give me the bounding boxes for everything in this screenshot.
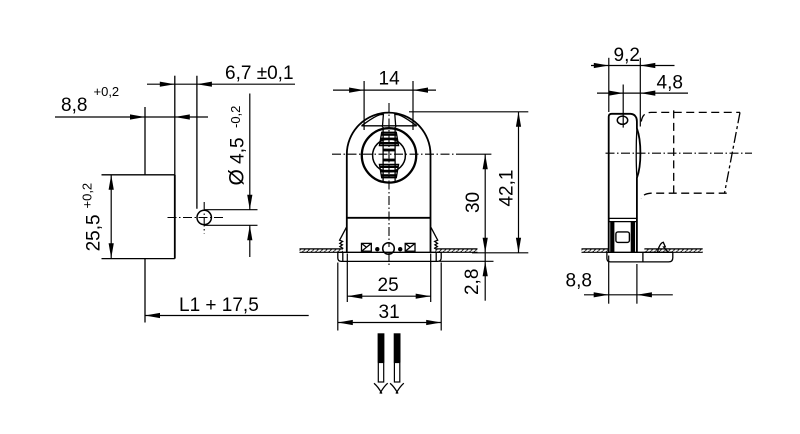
contact stack bottom <box>379 164 398 177</box>
contact strip left <box>610 222 614 253</box>
pin dot left <box>375 247 379 251</box>
svg-text:L1 + 17,5: L1 + 17,5 <box>179 295 259 316</box>
svg-text:-0,2: -0,2 <box>228 106 243 128</box>
svg-text:14: 14 <box>379 69 401 90</box>
foot claw left <box>340 227 347 248</box>
dimension 42,1 <box>518 112 520 253</box>
contact stack top <box>379 132 398 145</box>
svg-text:Ø 4,5: Ø 4,5 <box>226 137 249 185</box>
wire lead right <box>394 333 401 362</box>
svg-text:8,8: 8,8 <box>566 271 592 292</box>
pin dot right <box>398 247 402 251</box>
dimension 25,5 +0,2 <box>110 175 112 258</box>
dimension 6,7 ±0,1 <box>147 83 295 85</box>
mounting panel hatched strip left <box>582 249 609 252</box>
phantom lamp tube break line <box>725 112 741 193</box>
wire: mounting plane extension <box>472 252 528 254</box>
svg-text:2,8: 2,8 <box>462 269 483 295</box>
latch window <box>616 232 630 243</box>
mounting panel hatched strip right <box>644 249 702 252</box>
wire: profile top vertical edge x=145 <box>144 107 146 175</box>
node: horizontal centerline (lamp axis) <box>332 153 460 155</box>
svg-text:6,7 ±0,1: 6,7 ±0,1 <box>225 63 294 84</box>
wire: profile lower vertical edge x=145 <box>144 259 146 323</box>
dimension 8,8 (side) <box>608 256 610 304</box>
wire: body right side <box>430 154 432 252</box>
base flange side <box>607 252 673 262</box>
mounting panel hatched strip left <box>300 249 344 252</box>
contact strip right <box>631 222 635 253</box>
rotor outer circle <box>362 128 416 182</box>
center pin hole <box>383 243 395 255</box>
wire lead left <box>378 333 385 362</box>
dimension 2,8 <box>484 253 486 301</box>
dimension 9,2 <box>591 65 675 67</box>
svg-text:+0,2: +0,2 <box>80 183 95 209</box>
wire: lamp face plane line x=196.9 <box>196 76 198 209</box>
phantom lamp tube end <box>673 110 675 195</box>
recess wing left <box>362 114 384 127</box>
contact rungs center <box>383 149 395 152</box>
svg-text:+0,2: +0,2 <box>94 84 120 99</box>
mounting panel hatched strip right <box>435 249 478 252</box>
wire: profile bottom horizontal y=258.6 <box>102 258 175 260</box>
wire: body left side <box>346 154 348 252</box>
node: lamp axis centerline <box>606 152 753 154</box>
contact window left (square with cross) <box>362 243 372 251</box>
foot claw right <box>431 227 438 248</box>
svg-text:25: 25 <box>378 275 399 296</box>
contact channel walls <box>382 127 384 182</box>
wire: profile right vertical edge x=174.8 <box>174 76 176 175</box>
body side outline <box>609 114 641 253</box>
dimension 25 <box>346 254 348 303</box>
dimension 31 <box>337 263 339 331</box>
dimension 14 <box>333 89 436 91</box>
base box <box>609 217 637 219</box>
hole 4,5 circle <box>197 210 211 224</box>
mounting hole <box>617 116 627 124</box>
body dome arc <box>347 113 431 155</box>
svg-text:42,1: 42,1 <box>496 170 517 207</box>
svg-text:4,8: 4,8 <box>657 73 683 94</box>
contact window right (square with cross) <box>405 243 415 251</box>
snap claw <box>658 242 669 252</box>
wire: body step line <box>347 217 431 219</box>
dimension 4,8 <box>597 92 688 94</box>
svg-text:8,8: 8,8 <box>61 95 87 116</box>
phantom lamp tube bottom edge <box>641 193 726 199</box>
dome recess chord <box>361 125 416 127</box>
phantom lamp tube top edge <box>641 112 740 121</box>
recess wing right <box>395 114 417 127</box>
base flange <box>338 252 441 261</box>
rotor bulge arc <box>635 128 638 178</box>
svg-text:25,5: 25,5 <box>84 214 105 251</box>
wire: profile step horizontal y=174.8 <box>102 174 175 176</box>
node: vertical centerline <box>388 103 390 247</box>
wire: top reference extension <box>409 111 528 113</box>
rotor inner circle <box>373 139 406 172</box>
node: hole centerlines <box>168 217 224 219</box>
svg-text:31: 31 <box>379 302 400 323</box>
dimension 30 <box>484 154 486 253</box>
svg-text:30: 30 <box>463 192 484 213</box>
dimension Ø4,5 -0,2 <box>249 94 251 210</box>
dimension L1 + 17,5 <box>145 315 309 317</box>
dimension 8,8 +0,2 <box>55 116 208 118</box>
svg-text:9,2: 9,2 <box>614 45 640 66</box>
